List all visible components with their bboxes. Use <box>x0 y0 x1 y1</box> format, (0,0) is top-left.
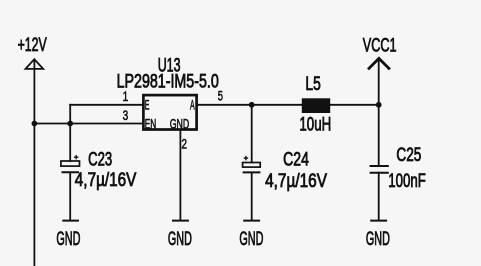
svg-text:C23: C23 <box>88 149 112 170</box>
svg-text:GND: GND <box>168 229 192 250</box>
svg-text:5: 5 <box>218 89 223 104</box>
svg-text:4,7µ/16V: 4,7µ/16V <box>265 171 327 192</box>
svg-text:1: 1 <box>123 89 129 104</box>
svg-text:3: 3 <box>123 108 129 123</box>
svg-text:GND: GND <box>239 229 263 250</box>
svg-text:2: 2 <box>182 137 188 152</box>
svg-text:10uH: 10uH <box>299 114 331 135</box>
svg-text:EN: EN <box>145 116 157 131</box>
svg-text:E: E <box>145 98 150 113</box>
svg-text:A: A <box>190 98 195 113</box>
svg-text:GND: GND <box>56 229 80 250</box>
svg-text:L5: L5 <box>305 74 320 95</box>
svg-text:GND: GND <box>366 229 390 250</box>
svg-text:GND: GND <box>170 116 190 131</box>
svg-text:VCC1: VCC1 <box>363 35 397 56</box>
svg-text:4,7µ/16V: 4,7µ/16V <box>75 170 137 191</box>
svg-text:+12V: +12V <box>18 35 47 56</box>
svg-text:100nF: 100nF <box>388 171 426 192</box>
svg-text:C25: C25 <box>396 145 421 166</box>
svg-text:LP2981-IM5-5.0: LP2981-IM5-5.0 <box>117 71 219 92</box>
svg-text:C24: C24 <box>283 150 309 171</box>
